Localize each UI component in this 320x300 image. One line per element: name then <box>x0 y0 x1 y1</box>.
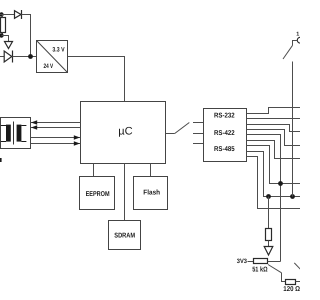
wire (transformer to uC, arrow right) <box>31 141 81 145</box>
node B <box>0 33 4 37</box>
memory U4 Flash <box>134 177 168 210</box>
svg-text:RS-485: RS-485 <box>214 146 235 153</box>
wire (uC serial out) <box>166 133 175 135</box>
svg-text:µC: µC <box>118 126 132 138</box>
wire <box>2 36 9 42</box>
memory U3 EEPROM <box>80 177 115 210</box>
switch S1 terminal circle <box>297 37 303 43</box>
wire w3 <box>247 125 301 132</box>
wire (stub RS-485) <box>193 143 204 145</box>
wire w6 <box>247 141 301 159</box>
diode D2 <box>4 51 12 63</box>
DC/DC converter U1 24V-3.3V <box>37 41 68 73</box>
node G (switch trunk tap) <box>290 194 295 199</box>
wire (uC to Flash) <box>150 164 152 177</box>
wire <box>0 56 4 58</box>
svg-text:SDRAM: SDRAM <box>114 233 135 240</box>
wire <box>2 33 4 36</box>
node E (w5 junction on w7) <box>278 181 283 186</box>
wire w7 <box>247 146 301 184</box>
interface U6 RS-232/RS-422/RS-485 <box>204 109 247 162</box>
node A (24V input junction) <box>0 12 4 16</box>
switch S4 blade <box>294 263 300 269</box>
node F (pull-down tap) <box>266 194 271 199</box>
ground (arrow) <box>264 247 273 256</box>
resistor R3 120 Ohm <box>286 280 296 285</box>
svg-text:Flash: Flash <box>143 189 160 197</box>
wire <box>293 41 298 46</box>
wire <box>268 241 270 247</box>
svg-text:51 kΩ: 51 kΩ <box>252 265 268 273</box>
wire (stub RS-422) <box>193 133 204 135</box>
wire (transformer to uC, arrow right) <box>31 135 81 139</box>
wire w2 <box>247 118 301 120</box>
wire <box>2 15 4 18</box>
resistor R2 51k <box>254 259 268 264</box>
svg-text:RS-422: RS-422 <box>214 130 235 137</box>
switch S2 (interface select blade) <box>175 123 190 134</box>
fuse F1 <box>1 18 6 33</box>
wire <box>248 261 254 263</box>
transformer T1 box <box>1 118 31 149</box>
resistor R1 <box>266 229 272 241</box>
svg-text:EEPROM: EEPROM <box>86 191 110 198</box>
wire (switch trunk) <box>292 62 294 197</box>
wire <box>268 261 281 263</box>
node D (left edge mark) <box>0 158 2 162</box>
svg-text:RS-232: RS-232 <box>214 112 235 119</box>
wire (uC to EEPROM) <box>93 164 95 177</box>
transformer T1 windings <box>1 122 27 145</box>
switch S1 blade <box>283 46 292 59</box>
wire (uC to transformer, arrow left) <box>31 120 81 124</box>
op-amp U2 microcontroller box <box>81 102 166 164</box>
svg-text:3V3: 3V3 <box>237 258 248 265</box>
switch S3 blade (termination) <box>268 265 282 273</box>
wire <box>22 15 31 57</box>
wire w9 <box>247 157 301 209</box>
wire <box>268 197 270 229</box>
wire (uC to transformer, arrow left) <box>31 125 81 129</box>
svg-text:120 Ω: 120 Ω <box>283 286 300 293</box>
svg-text:1: 1 <box>296 31 299 37</box>
wire <box>282 273 286 282</box>
diode D1 <box>15 10 22 19</box>
wire (stub RS-232) <box>193 122 204 124</box>
wire <box>0 14 15 16</box>
node C (diode junction) <box>28 54 33 59</box>
wire (uC to SDRAM) <box>124 164 126 221</box>
wire <box>296 281 301 283</box>
wire w5 (bias line to 51k switch) <box>247 135 281 262</box>
wire <box>13 56 37 58</box>
memory U5 SDRAM <box>109 221 141 250</box>
wire w8 <box>247 152 301 197</box>
wire w1 <box>247 108 301 114</box>
wire w4 <box>247 130 301 146</box>
wire (3.3V supply to uC) <box>68 57 125 102</box>
svg-text:24 V: 24 V <box>44 63 54 70</box>
ground (TVS arrow) <box>5 42 13 49</box>
svg-text:3.3 V: 3.3 V <box>52 47 65 54</box>
